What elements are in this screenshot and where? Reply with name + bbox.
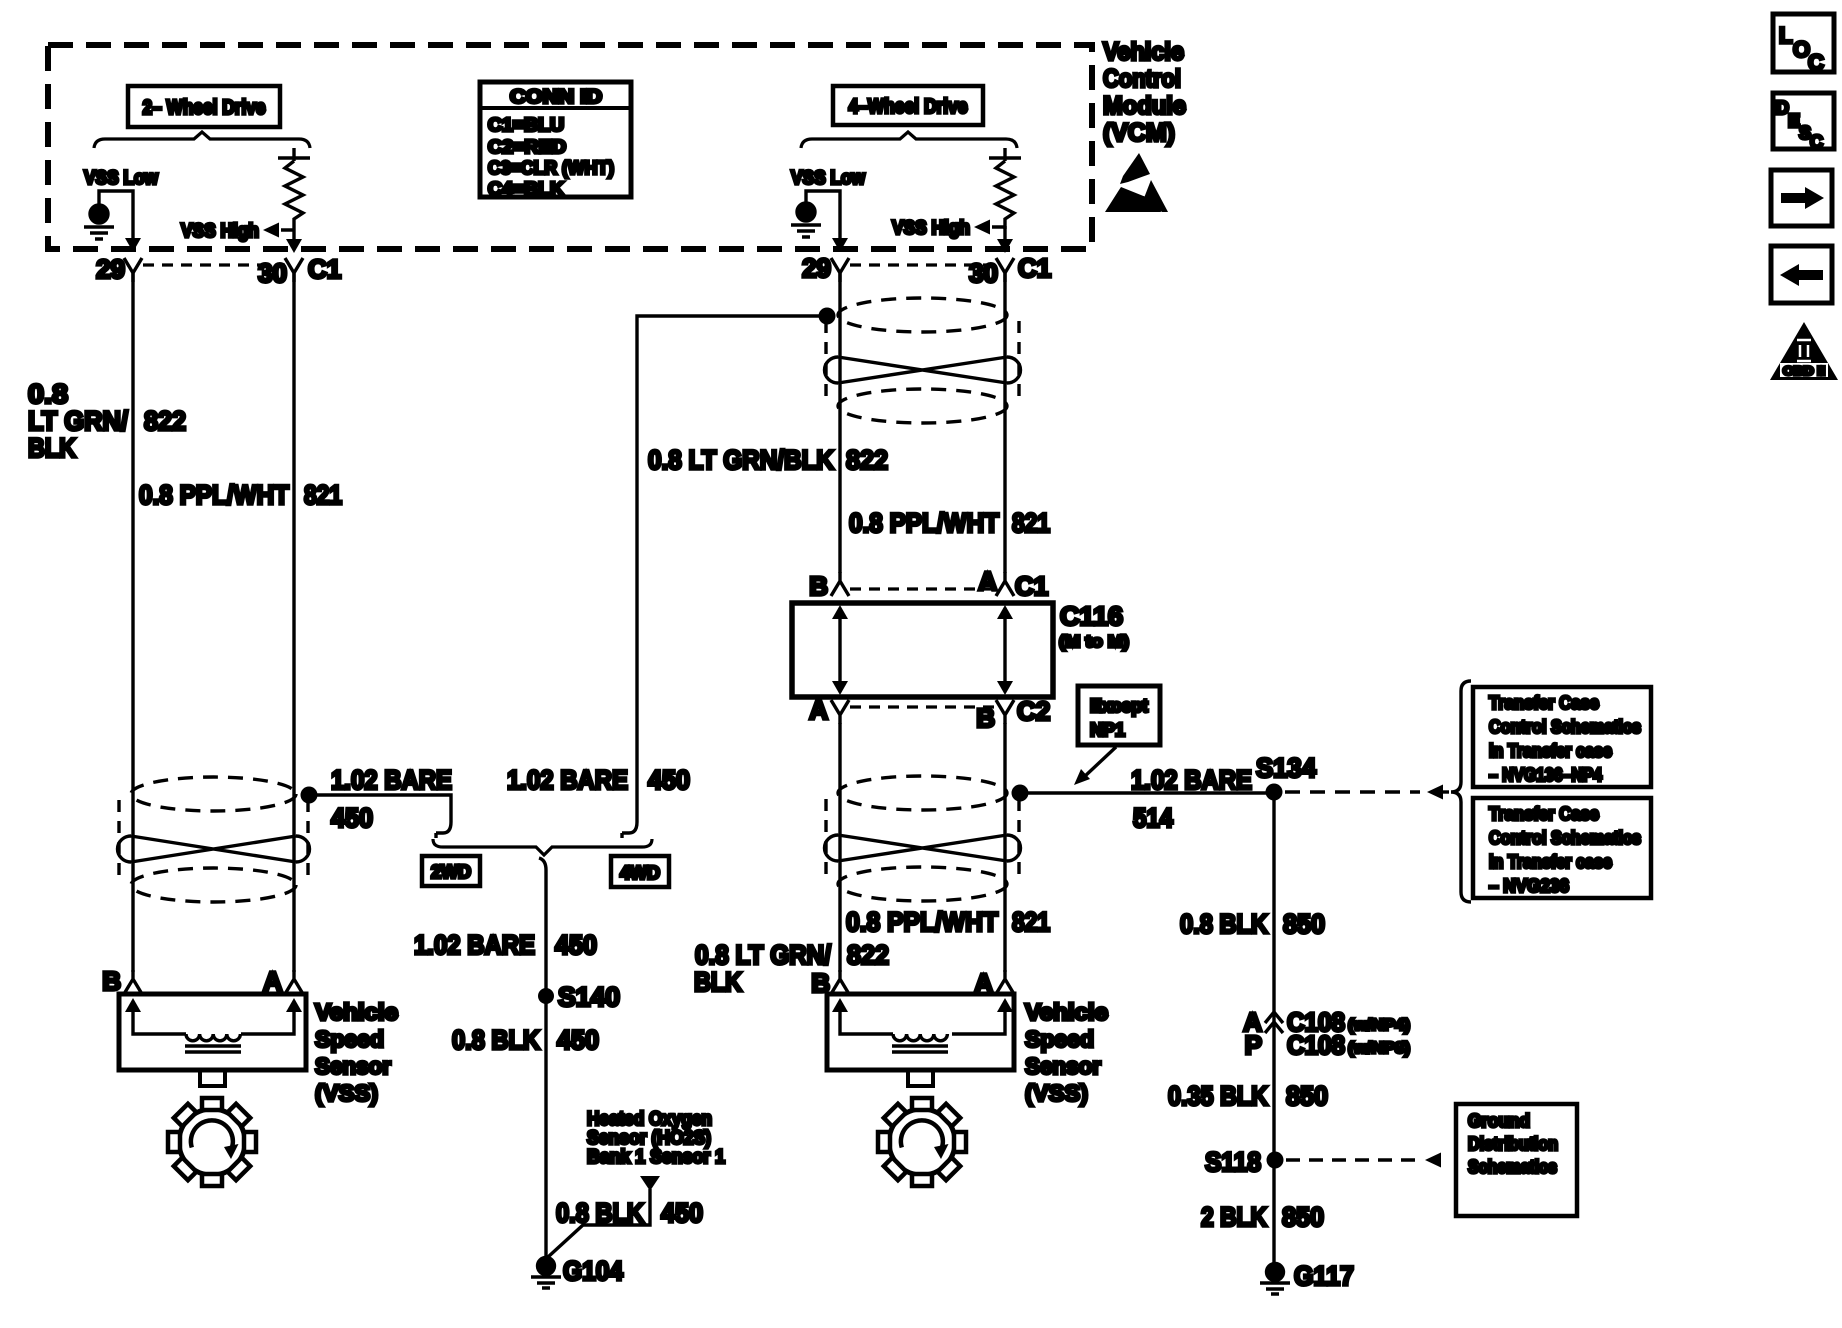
options merge bar with brace <box>433 839 652 855</box>
brace under 2-Wheel Drive <box>94 132 310 148</box>
svg-text:450: 450 <box>557 1025 599 1055</box>
label 0.8 PPL/WHT 821 (4WD upper) <box>849 508 1050 538</box>
svg-text:G117: G117 <box>1294 1261 1354 1291</box>
svg-text:Except: Except <box>1090 696 1148 716</box>
svg-text:Transfer Case: Transfer Case <box>1489 693 1599 713</box>
label Vehicle Speed Sensor (VSS) (right) <box>1025 999 1108 1106</box>
svg-text:850: 850 <box>1282 1202 1324 1232</box>
reluctor gear (right VSS) <box>878 1098 966 1186</box>
label box 4WD <box>611 856 669 887</box>
splice S134 <box>1256 753 1316 801</box>
reference box Transfer Case NVG136-NP4 <box>1473 687 1651 787</box>
label VSS Low (2WD) <box>84 168 158 189</box>
svg-text:A: A <box>978 566 997 596</box>
svg-text:C: C <box>1810 132 1823 152</box>
component box Vehicle Speed Sensor (right) <box>827 994 1014 1086</box>
svg-text:– NVG236: – NVG236 <box>1489 876 1569 896</box>
svg-text:(VCM): (VCM) <box>1103 119 1175 147</box>
svg-text:C108: C108 <box>1287 1030 1345 1060</box>
svg-text:0.35 BLK: 0.35 BLK <box>1168 1081 1268 1111</box>
svg-text:VSS High: VSS High <box>181 221 259 242</box>
svg-text:B: B <box>809 571 828 601</box>
reference box Ground Distribution Schematics <box>1456 1104 1577 1216</box>
svg-text:1.02 BARE: 1.02 BARE <box>331 765 452 795</box>
module box VCM (dashed) <box>48 45 1092 249</box>
svg-text:S140: S140 <box>558 982 620 1012</box>
wire 1.02 BARE 450 (2WD drain) <box>309 795 451 838</box>
icon arrow right <box>1771 170 1832 226</box>
svg-text:Speed: Speed <box>315 1026 384 1052</box>
svg-text:C1: C1 <box>1015 571 1048 601</box>
wire 822 LT GRN/BLK (4WD upper) <box>838 272 841 573</box>
label 0.8 BLK 450 (HO2S) <box>556 1198 703 1228</box>
svg-text:(w/NP8): (w/NP8) <box>1348 1040 1410 1057</box>
svg-text:450: 450 <box>648 765 690 795</box>
wire 0.8 BLK 450 to G104 <box>544 996 547 1258</box>
svg-text:C3=CLR (WHT): C3=CLR (WHT) <box>488 158 614 178</box>
svg-text:1.02 BARE: 1.02 BARE <box>1131 765 1252 795</box>
svg-text:Sensor (HO2S): Sensor (HO2S) <box>587 1128 711 1149</box>
svg-text:Ground: Ground <box>1468 1111 1530 1131</box>
svg-text:Vehicle: Vehicle <box>1103 38 1184 66</box>
ground G117 <box>1260 1261 1354 1294</box>
svg-text:P: P <box>1245 1030 1262 1060</box>
svg-text:821: 821 <box>304 480 342 510</box>
label A C108 (w/NP4) <box>1243 1007 1410 1037</box>
label box 4-Wheel Drive <box>833 86 983 125</box>
svg-text:Module: Module <box>1103 92 1186 120</box>
svg-text:0.8 LT GRN/BLK: 0.8 LT GRN/BLK <box>648 445 834 475</box>
svg-text:Transfer Case: Transfer Case <box>1489 804 1599 824</box>
svg-text:(w/NP4): (w/NP4) <box>1348 1017 1410 1034</box>
svg-text:C1=BLU: C1=BLU <box>488 115 564 135</box>
connector dashed line C1 (4WD) <box>850 263 996 266</box>
wire 822 (4WD lower) <box>838 723 841 972</box>
svg-text:0.8 PPL/WHT: 0.8 PPL/WHT <box>139 480 289 510</box>
svg-text:Control: Control <box>1103 65 1181 93</box>
svg-text:OBD II: OBD II <box>1783 364 1825 378</box>
label Vehicle Speed Sensor (VSS) (left) <box>315 999 398 1106</box>
svg-text:0.8 PPL/WHT: 0.8 PPL/WHT <box>849 508 999 538</box>
svg-text:450: 450 <box>661 1198 703 1228</box>
svg-text:BLK: BLK <box>694 967 742 997</box>
twisted pair (4WD upper) <box>825 298 1021 423</box>
arrow VSS High left (4WD) <box>974 220 1013 254</box>
icon OBD II triangle <box>1770 322 1838 380</box>
svg-text:29: 29 <box>802 253 831 283</box>
junction dot on shield (4WD lower) <box>1012 785 1029 802</box>
wire 821 PPL/WHT (2WD) circuit <box>292 272 295 972</box>
svg-text:Control Schematics: Control Schematics <box>1489 828 1641 848</box>
svg-text:4–Wheel Drive: 4–Wheel Drive <box>849 96 968 118</box>
svg-text:L: L <box>1779 23 1792 48</box>
svg-text:C1: C1 <box>1018 253 1051 283</box>
brace under 4-Wheel Drive <box>801 132 1017 148</box>
label Heated Oxygen Sensor (HO2S) Bank 1 Sensor 1 <box>587 1109 725 1168</box>
connector C2 label at C116 bottom <box>1017 696 1050 726</box>
svg-text:Heated Oxygen: Heated Oxygen <box>587 1109 712 1130</box>
svg-text:450: 450 <box>555 930 597 960</box>
svg-text:822: 822 <box>846 445 888 475</box>
component box Vehicle Speed Sensor (left) <box>119 994 306 1086</box>
svg-text:Sensor: Sensor <box>1025 1053 1101 1079</box>
svg-text:C2: C2 <box>1017 696 1050 726</box>
svg-text:G104: G104 <box>563 1256 623 1286</box>
reluctor gear (left VSS) <box>168 1098 256 1186</box>
label VSS High (4WD) <box>892 218 970 239</box>
svg-text:1.02 BARE: 1.02 BARE <box>507 765 628 795</box>
svg-text:S118: S118 <box>1205 1147 1261 1177</box>
label 0.8 LT GRN/BLK 822 (4WD lower) <box>694 940 889 997</box>
svg-text:(VSS): (VSS) <box>315 1080 378 1106</box>
label 1.02 BARE 450 (middle) <box>507 765 690 795</box>
icon LOC <box>1773 14 1834 75</box>
svg-text:VSS Low: VSS Low <box>84 168 158 189</box>
svg-text:0.8 LT GRN/: 0.8 LT GRN/ <box>695 940 831 970</box>
ESD sensitivity symbol <box>1105 153 1168 212</box>
arrow VSS High left (2WD) <box>263 223 302 254</box>
svg-text:VSS High: VSS High <box>892 218 970 239</box>
svg-text:A: A <box>809 695 828 725</box>
svg-text:Speed: Speed <box>1025 1026 1094 1052</box>
svg-text:0.8 BLK: 0.8 BLK <box>556 1198 644 1228</box>
arrow to transfer case brace <box>1427 785 1449 800</box>
icon DESC <box>1773 93 1834 152</box>
label C116 (M to M) <box>1059 601 1129 651</box>
svg-text:(M to M): (M to M) <box>1059 632 1129 651</box>
label Vehicle Control Module (VCM) <box>1103 38 1186 147</box>
resistor VSS High (4WD) <box>989 148 1021 229</box>
arrow to ground distribution box <box>1425 1153 1441 1168</box>
svg-text:Sensor: Sensor <box>315 1053 391 1079</box>
twisted pair (2WD) <box>118 777 310 902</box>
wire 0.8 BLK 850 <box>1272 792 1275 1264</box>
svg-text:30: 30 <box>969 258 998 288</box>
pin A (right VSS) <box>974 968 1014 998</box>
connector C1 label (2WD) <box>308 254 341 284</box>
svg-text:C4=BLK: C4=BLK <box>488 179 564 199</box>
svg-text:0.8 BLK: 0.8 BLK <box>1180 909 1268 939</box>
pin 29 (4WD) <box>802 253 849 283</box>
svg-text:NP1: NP1 <box>1090 720 1125 740</box>
pin A (left VSS) <box>263 966 303 996</box>
junction dot on shield (4WD upper) <box>819 308 836 325</box>
label VSS High (2WD) <box>181 221 259 242</box>
svg-text:514: 514 <box>1133 803 1173 833</box>
svg-text:822: 822 <box>847 940 889 970</box>
svg-text:2 BLK: 2 BLK <box>1201 1202 1267 1232</box>
connector dashed line C116 top <box>850 587 996 590</box>
svg-text:29: 29 <box>96 254 125 284</box>
svg-text:2WD: 2WD <box>431 862 471 882</box>
pin A at C116 top <box>978 566 1014 596</box>
ground G104 <box>531 1256 623 1288</box>
ground symbol VSS Low (2WD) <box>84 191 141 252</box>
wire 821 (4WD lower) <box>1003 723 1006 972</box>
label Except NP1 with arrow <box>1074 686 1160 785</box>
wire 1.02 BARE 450 (4WD drain upper) <box>622 316 823 838</box>
label P C108 (w/NP8) <box>1245 1030 1410 1060</box>
pin 30 (2WD) <box>258 258 303 288</box>
svg-text:C116: C116 <box>1060 601 1123 631</box>
pin B at C116 bottom <box>976 700 1014 733</box>
label 0.8 PPL/WHT 821 (4WD lower) <box>846 907 1050 937</box>
pin B (left VSS) <box>102 966 142 996</box>
pin 29 (2WD) <box>96 254 142 284</box>
brace for transfer case boxes <box>1451 681 1471 902</box>
wire 822 LT GRN/BLK (2WD) circuit <box>131 272 134 972</box>
label VSS Low (4WD) <box>791 168 865 189</box>
svg-text:0.8 PPL/WHT: 0.8 PPL/WHT <box>846 907 998 937</box>
svg-text:(VSS): (VSS) <box>1025 1080 1088 1106</box>
svg-text:0.8 BLK: 0.8 BLK <box>452 1025 540 1055</box>
connector C1 label (4WD) <box>1018 253 1051 283</box>
connector box C116 <box>792 603 1053 697</box>
svg-text:CONN ID: CONN ID <box>510 87 602 108</box>
label 0.8 LT GRN/BLK 822 (2WD) <box>28 379 186 463</box>
svg-text:Vehicle: Vehicle <box>315 999 398 1025</box>
svg-text:Vehicle: Vehicle <box>1025 999 1108 1025</box>
svg-text:821: 821 <box>1012 907 1050 937</box>
label 1.02 BARE 450 (merged) <box>414 930 597 960</box>
svg-text:C: C <box>1808 50 1824 75</box>
pin 30 (4WD) <box>969 258 1014 288</box>
wire 450 merged to S140 <box>539 858 546 996</box>
inline connector C108 chevrons <box>1265 1012 1283 1033</box>
label 0.8 BLK 850 <box>1180 909 1325 939</box>
svg-text:850: 850 <box>1283 909 1325 939</box>
pin B at C116 top <box>809 571 849 601</box>
label 0.35 BLK 850 <box>1168 1081 1328 1111</box>
label box 2WD <box>422 856 480 886</box>
reference box Transfer Case NVG236 <box>1473 798 1651 898</box>
svg-text:450: 450 <box>331 803 373 833</box>
label box 2-Wheel Drive <box>128 86 280 127</box>
label 1.02 BARE 514 <box>1131 765 1252 833</box>
wire 1.02 BARE 514 to S134 <box>1020 791 1274 794</box>
twisted pair (4WD lower) <box>825 776 1021 901</box>
svg-text:LT GRN/: LT GRN/ <box>28 406 128 436</box>
connector C1 label at C116 top <box>1015 571 1048 601</box>
svg-text:Bank 1 Sensor 1: Bank 1 Sensor 1 <box>587 1147 725 1168</box>
svg-text:in Transfer case: in Transfer case <box>1489 741 1612 761</box>
svg-text:0.8: 0.8 <box>28 379 68 409</box>
svg-text:822: 822 <box>144 406 186 436</box>
svg-text:1.02 BARE: 1.02 BARE <box>414 930 535 960</box>
table CONN ID <box>480 82 631 199</box>
HO2S wire with connector triangle <box>548 1176 660 1257</box>
svg-text:in Transfer case: in Transfer case <box>1489 852 1612 872</box>
splice S140 <box>538 982 620 1012</box>
svg-text:– NVG136–NP4: – NVG136–NP4 <box>1489 765 1602 785</box>
label 0.8 LT GRN/BLK 822 (4WD) <box>648 445 888 475</box>
svg-text:Distribution: Distribution <box>1468 1134 1558 1154</box>
pin A at C116 bottom <box>809 695 849 725</box>
wire 821 PPL/WHT (4WD upper) <box>1003 272 1006 573</box>
connector dashed line C116 bottom <box>850 705 996 708</box>
label 2 BLK 850 <box>1201 1202 1324 1232</box>
splice tap junction dot (2WD drain) <box>301 787 318 804</box>
svg-text:821: 821 <box>1012 508 1050 538</box>
ground symbol VSS Low (4WD) <box>791 191 848 252</box>
label 0.8 PPL/WHT 821 (2WD) <box>139 480 342 510</box>
label 1.02 BARE 450 (left) <box>331 765 452 833</box>
svg-text:4WD: 4WD <box>620 863 660 883</box>
svg-text:C2=RED: C2=RED <box>488 137 566 157</box>
svg-text:BLK: BLK <box>28 433 76 463</box>
svg-text:VSS Low: VSS Low <box>791 168 865 189</box>
svg-text:Control Schematics: Control Schematics <box>1489 717 1641 737</box>
svg-text:2– Wheel Drive: 2– Wheel Drive <box>143 97 266 119</box>
splice S118 <box>1205 1147 1284 1177</box>
icon arrow left <box>1771 246 1832 303</box>
connector dashed line C1 (2WD) <box>143 263 285 266</box>
svg-text:C1: C1 <box>308 254 341 284</box>
resistor VSS High (2WD) <box>278 148 310 229</box>
svg-text:850: 850 <box>1286 1081 1328 1111</box>
pin B (right VSS) <box>811 968 849 998</box>
svg-text:S134: S134 <box>1256 753 1316 783</box>
dashed wire S118 to ground distribution <box>1286 1158 1418 1161</box>
dashed wire S134 to transfer case schematics <box>1285 790 1420 793</box>
svg-text:Schematics: Schematics <box>1468 1157 1557 1177</box>
svg-text:30: 30 <box>258 258 287 288</box>
label 0.8 BLK 450 <box>452 1025 599 1055</box>
